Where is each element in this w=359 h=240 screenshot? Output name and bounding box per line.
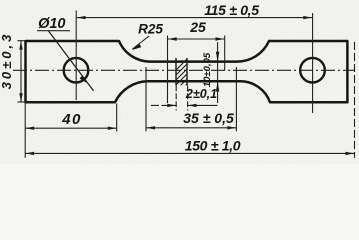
svg-text:115 ± 0,5: 115 ± 0,5 bbox=[204, 2, 259, 18]
dimension 25 left extension bbox=[167, 36, 169, 104]
dimension 25 right arrow bbox=[216, 37, 225, 40]
specimen outline bbox=[26, 41, 348, 102]
svg-text:2±0,1: 2±0,1 bbox=[185, 87, 217, 101]
horizontal centerline bbox=[13, 69, 355, 71]
dimension 150 line bbox=[25, 152, 354, 154]
label R25 arrow bbox=[132, 44, 142, 50]
svg-text:35 ± 0,5: 35 ± 0,5 bbox=[183, 110, 234, 126]
dimension 30±0.3 top arrow bbox=[19, 41, 22, 50]
dimension 150 right arrow bbox=[346, 152, 355, 155]
dimension 2±0.1 left extension bbox=[175, 85, 177, 110]
dimension 150 left arrow bbox=[25, 152, 34, 155]
dimension 2±0.1 right extension bbox=[187, 85, 189, 110]
dimension 115 left arrow bbox=[77, 16, 86, 19]
svg-text:10±0,05: 10±0,05 bbox=[202, 52, 213, 87]
dimension 30±0.3 bottom arrow bbox=[19, 93, 22, 102]
neck width upper arrow bbox=[216, 52, 219, 62]
svg-text:25: 25 bbox=[189, 19, 206, 35]
dimension 35 left extension bbox=[145, 67, 147, 131]
dimension 25 right extension bbox=[224, 36, 226, 71]
dimension 40 right extension bbox=[116, 104, 118, 132]
dimension 30±0.3 line bbox=[20, 41, 22, 102]
section strip hatching bbox=[168, 56, 204, 99]
paper noise overlay bbox=[0, 0, 359, 164]
dimension 40 left arrow bbox=[26, 127, 35, 130]
svg-text:40: 40 bbox=[61, 111, 82, 128]
dimension 150 left extension bbox=[24, 103, 26, 158]
section strip left edge bbox=[175, 58, 177, 85]
dimension 25 left arrow bbox=[168, 37, 177, 40]
dimension 2±0.1 left arrow bbox=[167, 104, 176, 107]
dimension 2±0.1 right arrow bbox=[188, 104, 197, 107]
dimension 35 left arrow bbox=[146, 126, 155, 129]
neck width lower arrow bbox=[216, 81, 219, 91]
dimension 115±0.5 line bbox=[77, 17, 312, 19]
dimension 2±0.1 left line bbox=[151, 104, 176, 106]
neck width dimension line bbox=[217, 42, 219, 103]
label Ø10 leader bbox=[49, 31, 94, 91]
dimension 35 line bbox=[146, 127, 236, 129]
svg-text:30±0,3: 30±0,3 bbox=[0, 32, 14, 90]
svg-text:150 ± 1,0: 150 ± 1,0 bbox=[185, 137, 241, 153]
dimension 150 right extension bbox=[354, 42, 356, 158]
left hole vertical centerline bbox=[75, 11, 77, 101]
svg-text:Ø10: Ø10 bbox=[38, 16, 65, 32]
right hole vertical centerline bbox=[312, 13, 314, 113]
hole left (Ø10) bbox=[64, 58, 89, 83]
label R25 leader bbox=[133, 36, 150, 49]
dimension 35 right arrow bbox=[227, 126, 236, 129]
dimension 30±0.3 top tick bbox=[18, 40, 27, 42]
dimension 40 line bbox=[26, 127, 117, 129]
dimension 40 right arrow bbox=[108, 127, 117, 130]
label Ø10 shelf bbox=[37, 30, 70, 32]
section strip right edge bbox=[186, 58, 188, 85]
hole right bbox=[300, 58, 325, 83]
dimension 115 right arrow bbox=[303, 16, 312, 19]
dimension 25 line bbox=[168, 38, 224, 40]
dimension 30±0.3 bottom tick bbox=[18, 101, 27, 103]
svg-text:R25: R25 bbox=[138, 22, 163, 37]
dimension 2±0.1 right line bbox=[188, 104, 218, 106]
dimension 35 right extension bbox=[235, 67, 237, 131]
label Ø10 arrow bbox=[80, 75, 88, 83]
